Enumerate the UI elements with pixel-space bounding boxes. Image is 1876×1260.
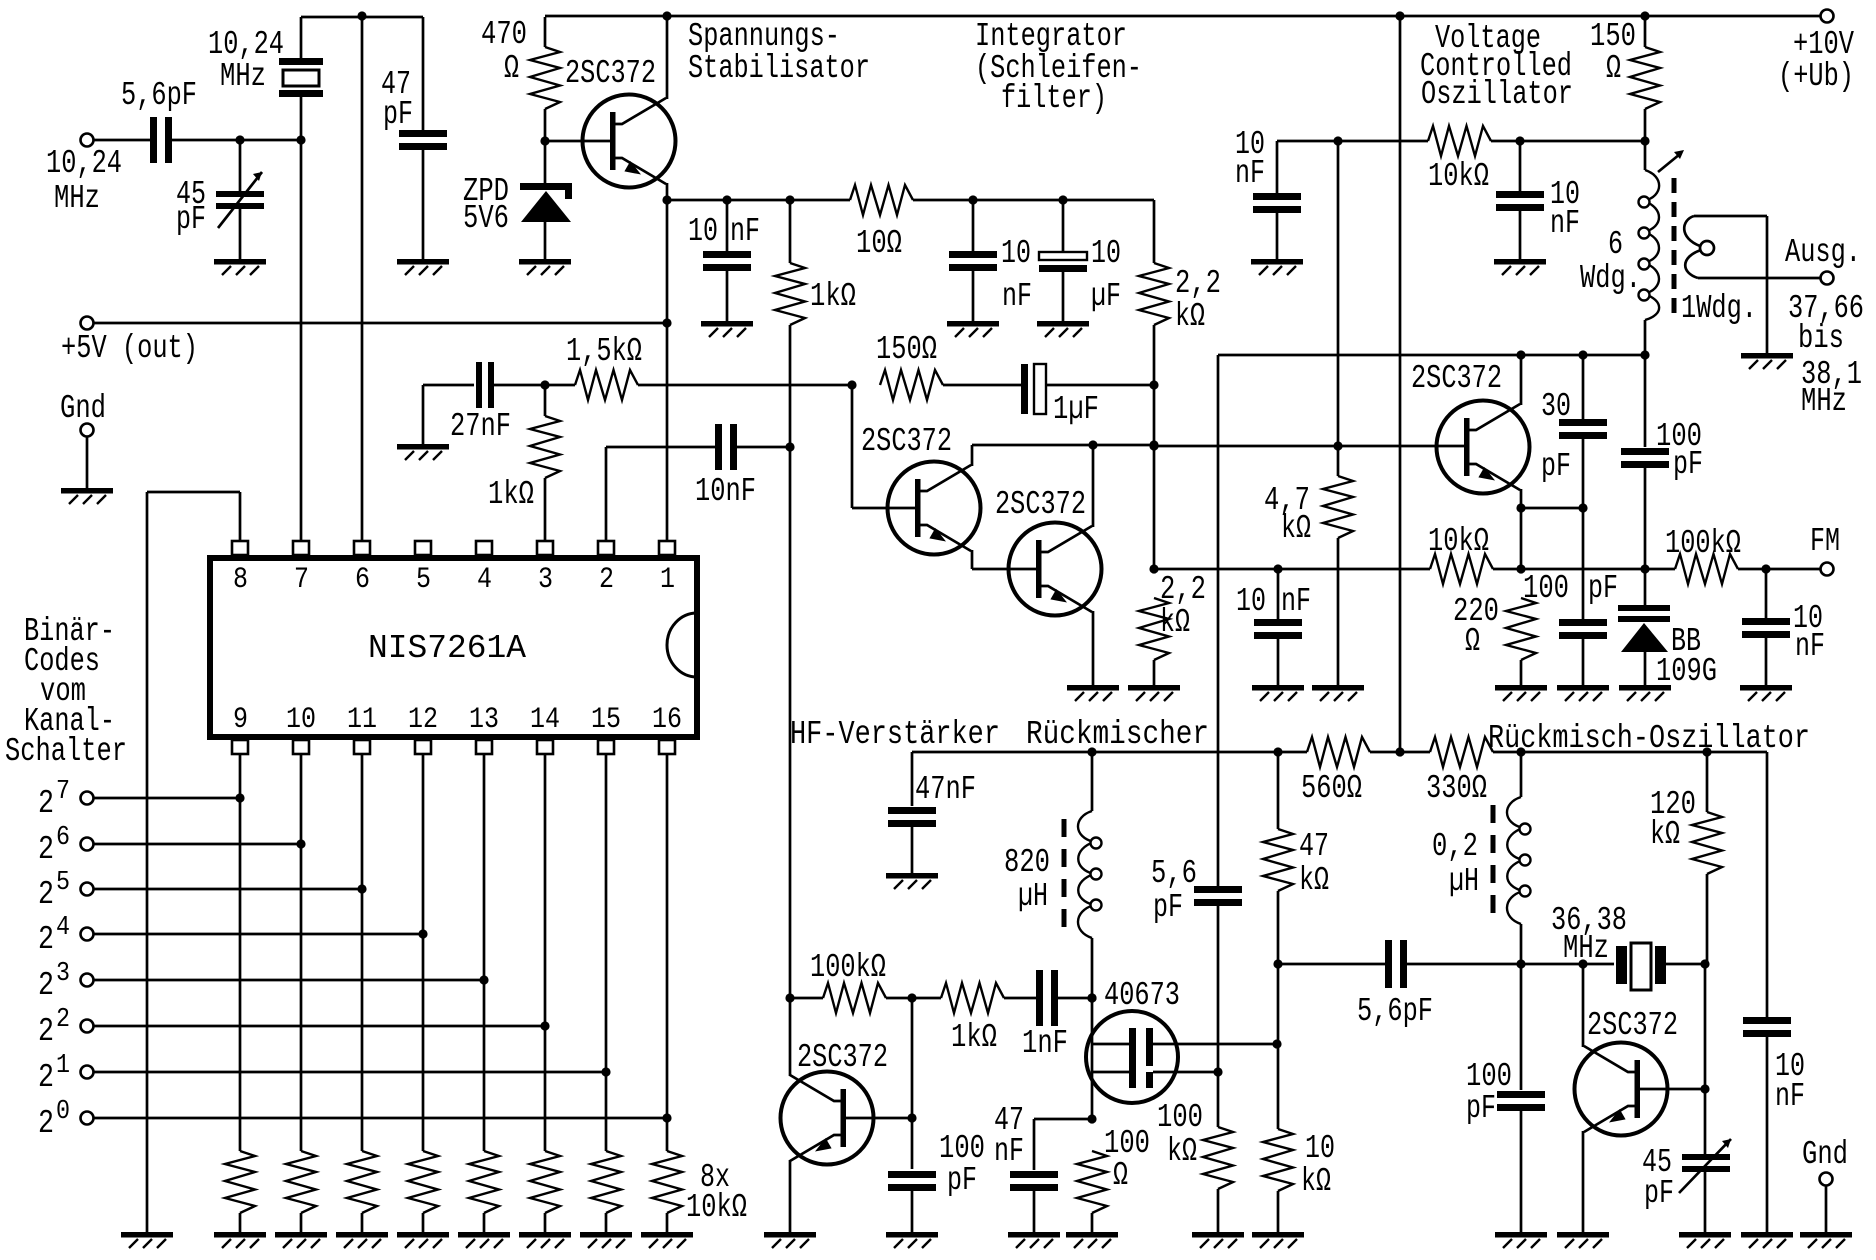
- resistor 150 Ohm: [880, 370, 943, 400]
- wire: [1644, 109, 1647, 141]
- svg-text:(+Ub): (+Ub): [1778, 58, 1854, 95]
- svg-text:47: 47: [1299, 828, 1329, 865]
- junction: [907, 993, 916, 1002]
- svg-text:10: 10: [1236, 583, 1266, 620]
- transistor Q3 2SC372: [1009, 523, 1102, 616]
- wire: [1766, 1036, 1769, 1232]
- wire VCO to mixer: [1217, 355, 1220, 886]
- ground: [1557, 1232, 1609, 1248]
- ground: [61, 488, 113, 504]
- pin 14 stub: [537, 740, 553, 754]
- svg-text:FM: FM: [1810, 523, 1840, 560]
- resistor 10kOhm pulldown 7: [591, 1151, 621, 1213]
- capacitor 5,6pF (injection): [1194, 886, 1242, 893]
- svg-text:1: 1: [56, 1051, 70, 1081]
- resistor 1kOhm (stabilizer): [775, 263, 805, 325]
- wire: [943, 384, 1021, 387]
- wire: [1706, 752, 1709, 812]
- svg-text:pF: pF: [1588, 570, 1618, 607]
- capacitor 100pF (emitter): [1559, 619, 1607, 626]
- junction: [540, 136, 549, 145]
- junction: [1395, 11, 1404, 20]
- ground: [214, 259, 266, 275]
- wire pin 9 down: [239, 754, 242, 1151]
- wire 2^0 line: [94, 1117, 667, 1120]
- wire: [851, 385, 854, 508]
- wire pin 8: [239, 492, 242, 541]
- ground: [336, 1232, 388, 1248]
- svg-text:pF: pF: [1673, 446, 1703, 483]
- capacitor 10nF (pin2): [715, 424, 722, 470]
- resistor 10kOhm pulldown 8: [652, 1151, 682, 1213]
- ground: [397, 259, 449, 275]
- pin 3 stub: [537, 541, 553, 555]
- svg-text:10kΩ: 10kΩ: [686, 1189, 747, 1226]
- wire: [1644, 320, 1647, 355]
- wire: [1644, 467, 1647, 569]
- svg-text:pF: pF: [1644, 1175, 1674, 1212]
- resistor 100kOhm (FM): [1675, 554, 1738, 584]
- junction: [662, 318, 671, 327]
- wire: [1582, 638, 1585, 685]
- junction: [1516, 503, 1525, 512]
- wire: [972, 444, 1154, 447]
- svg-text:2: 2: [38, 921, 54, 958]
- wire: [1520, 1110, 1523, 1232]
- ground: [1128, 685, 1180, 701]
- wire: [170, 139, 301, 142]
- wire 2^4 line: [94, 933, 423, 936]
- node Ausg. terminal: [1821, 272, 1834, 285]
- svg-text:10kΩ: 10kΩ: [1428, 158, 1489, 195]
- ground: [214, 1232, 266, 1248]
- wire: [886, 997, 941, 1000]
- wire: [790, 997, 823, 1000]
- svg-text:560Ω: 560Ω: [1301, 770, 1362, 807]
- ground: [1495, 1232, 1547, 1248]
- wire base Q6: [1640, 1088, 1705, 1091]
- svg-text:11: 11: [347, 703, 377, 737]
- wire: [239, 1213, 242, 1232]
- wire: [544, 109, 547, 141]
- svg-text:5: 5: [416, 563, 431, 597]
- wire: [1033, 1119, 1036, 1170]
- svg-text:5,6pF: 5,6pF: [121, 77, 197, 114]
- junction: [296, 135, 305, 144]
- svg-text:2,2: 2,2: [1160, 571, 1206, 608]
- junction: [722, 195, 731, 204]
- wire: [1370, 751, 1430, 754]
- junction: [785, 442, 794, 451]
- inductor 0,2uH: [1507, 797, 1531, 924]
- svg-text:nF: nF: [1281, 583, 1311, 620]
- svg-text:0,2: 0,2: [1432, 828, 1478, 865]
- svg-text:MHz: MHz: [220, 58, 266, 95]
- capacitor 10nF (loop filter): [949, 251, 997, 258]
- wire +10V rail: [545, 15, 1827, 18]
- wire collector Q2: [971, 445, 974, 466]
- wire pin 14 down: [544, 754, 547, 1151]
- wire: [972, 200, 975, 253]
- wire Q4 base line: [1154, 445, 1465, 448]
- IC NIS7261A: [210, 558, 697, 737]
- svg-text:2SC372: 2SC372: [565, 55, 656, 92]
- ground: [1741, 1232, 1793, 1248]
- resistor 1kOhm (pin3): [530, 416, 560, 478]
- wire: [1033, 1190, 1036, 1232]
- wire: [1217, 1189, 1220, 1232]
- resistor 10kOhm (FM): [1430, 554, 1493, 584]
- wire: [1765, 637, 1768, 685]
- wire: [239, 140, 242, 191]
- wire VCO tank line: [1218, 354, 1645, 357]
- svg-text:5: 5: [56, 868, 70, 898]
- ground: [1494, 259, 1546, 275]
- wire pin 10 down: [300, 754, 303, 1151]
- transformer primary 6 Wdg: [1639, 170, 1660, 320]
- svg-text:0: 0: [56, 1097, 70, 1127]
- junction: [601, 1067, 610, 1076]
- junction: [1516, 747, 1525, 756]
- wire: [726, 200, 729, 253]
- wire: [789, 325, 792, 445]
- junction: [1516, 350, 1525, 359]
- capacitor 10nF (FM line): [1254, 619, 1302, 626]
- svg-text:2,2: 2,2: [1175, 265, 1221, 302]
- transistor Q6 2SC372 (osc): [1575, 1043, 1668, 1136]
- junction: [1273, 747, 1282, 756]
- svg-text:109G: 109G: [1656, 653, 1717, 690]
- ground: [886, 873, 938, 889]
- pin 1 stub: [659, 541, 675, 555]
- svg-text:Oszillator: Oszillator: [1421, 76, 1573, 113]
- capacitor 10nF (VCO supply a): [1253, 193, 1301, 200]
- wire to IC pin 3: [544, 478, 547, 540]
- wire: [422, 17, 425, 131]
- resistor 10kOhm pulldown 3: [347, 1151, 377, 1213]
- svg-text:NIS7261A: NIS7261A: [368, 630, 526, 667]
- crystal 10,24MHz: [300, 17, 303, 58]
- wire: [1277, 1191, 1280, 1232]
- ground: [1252, 1232, 1304, 1248]
- svg-text:16: 16: [652, 703, 682, 737]
- junction: [907, 1113, 916, 1122]
- wire emitter Q2: [971, 550, 974, 569]
- node +10V terminal: [1821, 10, 1834, 23]
- junction: [1640, 136, 1649, 145]
- core 0,2uH: [1491, 805, 1496, 823]
- node +5V (out) terminal: [81, 317, 94, 330]
- svg-text:2SC372: 2SC372: [797, 1039, 888, 1076]
- junction: [1516, 564, 1525, 573]
- wire: [911, 998, 914, 1169]
- resistor 2,2kOhm (mixer): [1139, 598, 1169, 660]
- junction: [1578, 350, 1587, 359]
- resistor 10kOhm pulldown 4: [408, 1151, 438, 1213]
- capacitor 1nF: [1036, 970, 1043, 1026]
- capacitor 10nF (FM term): [1742, 618, 1790, 625]
- pin 7 stub: [293, 541, 309, 555]
- junction: [1578, 959, 1587, 968]
- wire: [1276, 141, 1279, 195]
- wire: [483, 1213, 486, 1232]
- svg-text:bis: bis: [1798, 320, 1844, 357]
- pin 6 stub: [354, 541, 370, 555]
- junction: [1761, 564, 1770, 573]
- svg-text:10: 10: [1001, 235, 1031, 272]
- svg-text:6: 6: [56, 823, 70, 853]
- ground: [701, 321, 753, 337]
- wire: [1644, 141, 1647, 170]
- svg-text:pF: pF: [1541, 448, 1571, 485]
- ground: [1740, 685, 1792, 701]
- wire: [422, 1213, 425, 1232]
- resistor 10kOhm pulldown 2: [286, 1151, 316, 1213]
- wire base Q2: [852, 507, 916, 510]
- wire: [1582, 355, 1585, 420]
- wire source lead: [1153, 1071, 1218, 1074]
- svg-text:+5V (out): +5V (out): [61, 330, 198, 367]
- svg-text:MHz: MHz: [1563, 930, 1609, 967]
- wire collector Q3: [1092, 445, 1095, 527]
- resistor 10kOhm (VCO supply): [1428, 126, 1491, 156]
- capacitor 45pF trimmer (osc): [1682, 1154, 1730, 1160]
- svg-text:pF: pF: [176, 201, 206, 238]
- pin 9 stub: [232, 740, 248, 754]
- node 10,24 MHz input terminal: [81, 134, 94, 147]
- pin 5 stub: [415, 541, 431, 555]
- svg-text:150Ω: 150Ω: [876, 331, 937, 368]
- svg-text:Wdg.: Wdg.: [1580, 260, 1641, 297]
- wire pin 11 down: [361, 754, 364, 1151]
- svg-text:kΩ: kΩ: [1175, 298, 1205, 335]
- junction: [662, 11, 671, 20]
- svg-text:nF: nF: [1002, 278, 1032, 315]
- resistor 10kOhm (drain): [1263, 1129, 1293, 1191]
- wire: [1582, 508, 1585, 621]
- svg-text:µF: µF: [1091, 278, 1121, 315]
- wire: [1704, 964, 1707, 1089]
- wire: [422, 149, 425, 259]
- capacitor 10nF (osc out): [1743, 1017, 1791, 1024]
- capacitor 5,6pF input coupling: [150, 117, 157, 163]
- svg-text:pF: pF: [1466, 1090, 1496, 1127]
- ground: [764, 1232, 816, 1248]
- transformer secondary 1 Wdg: [1684, 216, 1700, 246]
- svg-text:40673: 40673: [1104, 977, 1180, 1014]
- ground: [1192, 1232, 1244, 1248]
- svg-text:Gnd: Gnd: [60, 390, 106, 427]
- ground: [519, 259, 571, 275]
- wire: [422, 385, 425, 444]
- svg-text:µH: µH: [1449, 863, 1479, 900]
- junction: [1213, 1067, 1222, 1076]
- svg-text:Ω: Ω: [1465, 623, 1480, 660]
- pin 11 stub: [354, 740, 370, 754]
- svg-text:Ausg.: Ausg.: [1785, 234, 1861, 271]
- junction: [1578, 503, 1587, 512]
- capacitor 100pF (base Q5): [888, 1171, 936, 1178]
- wire: [361, 1213, 364, 1232]
- ground: [1067, 685, 1119, 701]
- svg-text:10Ω: 10Ω: [856, 225, 902, 262]
- svg-text:2: 2: [38, 876, 54, 913]
- capacitor 100pF (osc): [1497, 1091, 1545, 1098]
- wire supply mixer line: [912, 751, 1307, 754]
- wire: [494, 384, 545, 387]
- wire: [1766, 752, 1769, 1018]
- capacitor 47nF (supply): [888, 807, 936, 814]
- capacitor 27nF: [423, 384, 474, 387]
- wire: [726, 270, 729, 321]
- svg-text:HF-Verstärker: HF-Verstärker: [790, 716, 1000, 753]
- wire 2^1 line: [94, 1071, 606, 1074]
- svg-text:3: 3: [538, 563, 553, 597]
- wire varactor control: [1337, 141, 1340, 446]
- junction: [1333, 441, 1342, 450]
- svg-text:9: 9: [233, 703, 248, 737]
- svg-text:2SC372: 2SC372: [1411, 360, 1502, 397]
- ground: [1066, 1232, 1118, 1248]
- svg-text:2SC372: 2SC372: [995, 486, 1086, 523]
- svg-text:2: 2: [599, 563, 614, 597]
- wire: [1766, 216, 1769, 353]
- svg-text:10nF: 10nF: [695, 473, 756, 510]
- svg-text:2: 2: [38, 1105, 54, 1142]
- wire: [1337, 446, 1340, 476]
- wire: [1644, 16, 1647, 47]
- wire: [94, 139, 151, 142]
- ground: [1008, 1232, 1060, 1248]
- resistor 2,2kOhm (loop filter): [1139, 263, 1169, 325]
- wire: [911, 826, 914, 873]
- junction: [1087, 1114, 1096, 1123]
- resistor 560 Ohm: [1307, 737, 1370, 767]
- junction: [662, 1113, 671, 1122]
- ground: [1800, 1232, 1852, 1248]
- junction: [1700, 1084, 1709, 1093]
- resistor 47kOhm: [1263, 829, 1293, 891]
- ground: [947, 321, 999, 337]
- svg-text:13: 13: [469, 703, 499, 737]
- junction: [1272, 1039, 1281, 1048]
- svg-text:2: 2: [38, 831, 54, 868]
- svg-text:10: 10: [1305, 1130, 1335, 1167]
- svg-text:1: 1: [660, 563, 675, 597]
- svg-text:2: 2: [56, 1005, 70, 1035]
- svg-text:4: 4: [477, 563, 492, 597]
- svg-text:Ω: Ω: [1606, 50, 1621, 87]
- wire: [972, 270, 975, 321]
- svg-text:10: 10: [688, 213, 718, 250]
- wire 2^5 line: [94, 888, 362, 891]
- resistor 330 Ohm: [1430, 737, 1493, 767]
- svg-text:100kΩ: 100kΩ: [1665, 525, 1741, 562]
- wire: [1153, 325, 1156, 385]
- wire: [1153, 385, 1156, 445]
- inductor 820uH: [1078, 811, 1102, 938]
- svg-text:27nF: 27nF: [450, 408, 511, 445]
- wire: [1277, 569, 1280, 621]
- wire: [1694, 215, 1767, 218]
- wire: [146, 492, 149, 1232]
- junction: [540, 380, 549, 389]
- wire: [1644, 355, 1647, 447]
- wire: [606, 446, 717, 449]
- junction: [1333, 136, 1342, 145]
- wire: [1217, 905, 1220, 1072]
- capacitor 30pF: [1559, 419, 1607, 426]
- svg-text:5,6pF: 5,6pF: [1357, 993, 1433, 1030]
- node Gnd bottom terminal: [1820, 1173, 1833, 1186]
- junction: [1640, 564, 1649, 573]
- wire: [1276, 212, 1279, 259]
- zener diode ZPD 5V6: [544, 141, 547, 183]
- wire: [911, 1190, 914, 1232]
- junction: [1088, 440, 1097, 449]
- svg-text:2: 2: [38, 967, 54, 1004]
- pin 10 stub: [293, 740, 309, 754]
- wire: [544, 17, 547, 47]
- wire: [735, 446, 790, 449]
- wire oscillator net: [301, 16, 423, 19]
- svg-text:820: 820: [1004, 844, 1050, 881]
- capacitor 45pF trimmer: [216, 191, 264, 197]
- wire: [1277, 1044, 1280, 1129]
- svg-text:6: 6: [1608, 226, 1623, 263]
- junction: [1702, 747, 1711, 756]
- wire to IC pin 6: [361, 17, 364, 540]
- pin 8 stub: [232, 541, 248, 555]
- junction: [1149, 380, 1158, 389]
- svg-text:10: 10: [286, 703, 316, 737]
- svg-text:1kΩ: 1kΩ: [951, 1019, 997, 1056]
- svg-text:3: 3: [56, 959, 70, 989]
- junction: [235, 135, 244, 144]
- ground: [1312, 685, 1364, 701]
- svg-text:filter): filter): [1001, 80, 1107, 117]
- transistor Q5 2SC372 (HF amp): [781, 1072, 874, 1165]
- ground: [519, 1232, 571, 1248]
- resistor 10 Ohm: [850, 185, 913, 215]
- wire: [544, 385, 547, 416]
- wire: [1034, 1118, 1092, 1121]
- svg-text:Stabilisator: Stabilisator: [688, 50, 870, 87]
- ground: [1679, 1232, 1731, 1248]
- junction: [1149, 441, 1158, 450]
- wire s-lead: [1092, 1071, 1129, 1074]
- svg-text:µH: µH: [1018, 878, 1048, 915]
- capacitor 47pF: [399, 130, 447, 137]
- transistor Q4 2SC372 (VCO): [1437, 401, 1530, 494]
- capacitor 1uF: [1021, 364, 1028, 414]
- junction: [357, 11, 366, 20]
- wire: [1277, 752, 1280, 829]
- svg-text:10: 10: [1091, 235, 1121, 272]
- wire: [548, 384, 575, 387]
- junction: [1640, 11, 1649, 20]
- wire 2^7 line: [94, 797, 240, 800]
- junction: [1087, 747, 1096, 756]
- pin 13 stub: [476, 740, 492, 754]
- wire: [1004, 997, 1038, 1000]
- wire: [1706, 874, 1709, 964]
- pin 15 stub: [598, 740, 614, 754]
- wire VCO supply: [1277, 140, 1428, 143]
- wire: [666, 1213, 669, 1232]
- svg-text:Gnd: Gnd: [1802, 1136, 1848, 1173]
- capacitor 47nF (source): [1010, 1171, 1058, 1178]
